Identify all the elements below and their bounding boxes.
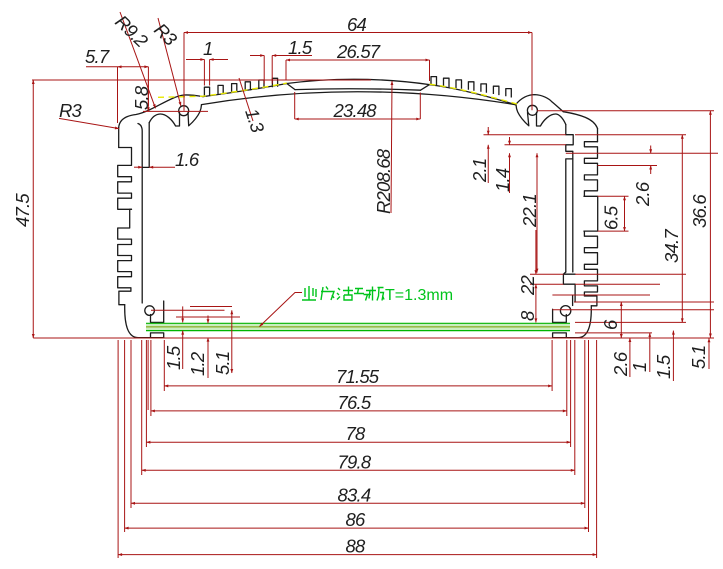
svg-text:47.5: 47.5 — [12, 193, 33, 227]
right wall lower outer + corner fillet — [553, 306, 592, 338]
right shoulder outer to wall — [563, 112, 597, 129]
svg-text:86: 86 — [346, 509, 366, 530]
svg-text:2.1: 2.1 — [469, 159, 490, 183]
svg-text:64: 64 — [347, 14, 366, 35]
dim 6.5 — [624, 196, 626, 231]
svg-text:6.5: 6.5 — [601, 205, 622, 230]
leader R3 top — [158, 18, 181, 106]
svg-text:2.6: 2.6 — [632, 181, 653, 207]
bottom extension line y=338 — [33, 337, 714, 339]
right wall inner line + notches — [566, 125, 573, 273]
right wall outer block — [597, 129, 599, 142]
svg-text:R3: R3 — [150, 19, 182, 50]
svg-text:R9.2: R9.2 — [111, 11, 152, 52]
svg-text:36.6: 36.6 — [689, 194, 710, 228]
svg-text:22.1: 22.1 — [519, 194, 540, 228]
green annotation: hand-drawn CJK 此为活动板 + T=1.3mm — [302, 286, 384, 301]
dim 2.1 — [487, 127, 489, 135]
ext line plate bottom right — [575, 332, 652, 334]
leader 1.3 wall thickness — [239, 78, 253, 121]
right boss hump outer — [516, 95, 564, 112]
plate center line — [146, 326, 570, 328]
ext lines right tab — [530, 273, 563, 275]
dim 1.6 — [134, 166, 142, 168]
svg-text:23.48: 23.48 — [333, 100, 378, 121]
extra ext line hook left — [147, 340, 149, 410]
svg-text:1.5: 1.5 — [653, 354, 674, 379]
char 动 — [354, 289, 371, 301]
76.5 — [150, 340, 152, 416]
svg-text:76.5: 76.5 — [338, 392, 372, 413]
svg-text:1.2: 1.2 — [187, 351, 208, 376]
svg-text:78: 78 — [346, 423, 366, 444]
svg-text:83.4: 83.4 — [338, 484, 371, 505]
svg-text:1.6: 1.6 — [175, 149, 200, 170]
left wall outer shoulder block — [118, 128, 120, 148]
svg-text:71.55: 71.55 — [336, 366, 380, 387]
right boss center line — [537, 110, 714, 112]
svg-text:5.7: 5.7 — [85, 46, 110, 67]
chamfer right of center recess — [421, 85, 430, 91]
svg-text:R208.68: R208.68 — [373, 148, 394, 214]
right wall inner tab 22/8 — [563, 272, 575, 302]
ext line hook top right — [574, 301, 714, 303]
dim 1 (tooth) — [203, 60, 205, 86]
right inner channel line — [572, 159, 574, 272]
plateau top arc R208.68 — [287, 79, 430, 84]
83.4 — [130, 340, 132, 508]
right boss screw-port omega — [516, 105, 529, 126]
dim 64 — [183, 33, 185, 111]
dim 1.5 (tooth gap) — [263, 56, 265, 84]
svg-text:1: 1 — [203, 38, 213, 59]
dim 1.5 bottom — [672, 331, 674, 381]
dim 6.5 ext — [598, 195, 629, 197]
right fins comb — [584, 142, 598, 197]
right hook circle — [560, 306, 570, 316]
right plate slot — [553, 309, 567, 322]
dim 5.8 vertical at boss — [147, 80, 149, 111]
dim 34.7 — [681, 135, 683, 323]
top extension line y=80 — [32, 79, 371, 81]
left hook circle — [145, 306, 155, 316]
char 活 — [337, 287, 353, 301]
inner top arc — [202, 92, 516, 105]
78 — [145, 340, 147, 447]
svg-text:88: 88 — [346, 536, 366, 557]
right outer arc under teeth band — [430, 85, 516, 105]
plate fill — [146, 324, 570, 330]
dim 26.57 — [285, 60, 287, 80]
left boss screw-port omega — [149, 113, 179, 127]
bottom dim stack: 71.55 — [163, 340, 165, 391]
big fin 6.5 — [584, 196, 598, 231]
plate top line — [146, 322, 570, 324]
leader R3 left — [59, 118, 119, 128]
dim 2.6 bottom — [629, 338, 631, 377]
leader R208.68 — [391, 81, 392, 213]
svg-text:6: 6 — [600, 319, 621, 330]
outer top: left shoulder + R9.2 boss hump — [119, 95, 203, 128]
88 — [117, 340, 119, 558]
svg-text:5.1: 5.1 — [688, 346, 709, 369]
svg-text:5.8: 5.8 — [131, 85, 152, 110]
char 板 — [370, 287, 384, 301]
dim 5.1 right — [708, 338, 710, 369]
right boss circle — [527, 105, 537, 115]
svg-text:T=1.3mm: T=1.3mm — [385, 287, 453, 304]
left plate slot — [151, 301, 164, 322]
86 — [124, 340, 126, 532]
left fins comb — [118, 148, 132, 210]
svg-text:2.6: 2.6 — [610, 351, 631, 377]
dim 23.48 — [294, 92, 296, 119]
left wall lower outer + corner fillet — [125, 305, 164, 338]
dim 1.4 — [509, 137, 511, 145]
svg-text:1: 1 — [629, 363, 650, 373]
svg-text:5.1: 5.1 — [212, 352, 233, 375]
svg-text:34.7: 34.7 — [661, 229, 682, 263]
dim 5.7 — [117, 67, 119, 123]
svg-text:79.8: 79.8 — [338, 451, 372, 472]
yellow dashed hidden line along arc — [158, 83, 517, 104]
ext line plate top right — [575, 321, 686, 323]
dim 2.6 upper right — [650, 146, 652, 154]
ext lines right wall grooves — [484, 134, 566, 136]
dim 22 — [535, 230, 537, 274]
center recess floor line 23.48 — [295, 89, 421, 90]
dim 8 — [535, 284, 537, 322]
svg-text:1.4: 1.4 — [492, 168, 513, 192]
top teeth right band — [431, 77, 511, 98]
left small dims 1.5/1.2/5.1 — [176, 316, 240, 318]
svg-text:8: 8 — [517, 310, 538, 321]
leader R9.2 — [120, 12, 156, 108]
svg-text:22: 22 — [517, 275, 538, 296]
annotation leader — [260, 293, 303, 327]
left outer arc under teeth band — [203, 84, 287, 97]
79.8 — [141, 340, 143, 475]
dim 22.1 — [536, 153, 538, 272]
svg-text:1.3: 1.3 — [241, 106, 269, 136]
svg-text:1.5: 1.5 — [288, 37, 313, 58]
svg-text:1.5: 1.5 — [163, 345, 184, 370]
plate bottom line — [146, 330, 570, 332]
top teeth left band — [204, 78, 277, 96]
svg-text:26.57: 26.57 — [336, 41, 381, 62]
char 为 — [321, 287, 334, 301]
char 此 — [302, 286, 316, 300]
dim 36.6 — [709, 111, 711, 338]
dim 6 right — [620, 302, 622, 338]
dim 47.5 vertical — [32, 80, 34, 338]
ext line left hook circle center — [151, 309, 225, 311]
dim 1 bottom — [649, 333, 651, 372]
left wall inner line + 1.6 tab — [138, 124, 142, 304]
svg-text:R3: R3 — [59, 100, 83, 121]
chamfer left of center recess — [287, 84, 295, 90]
left boss circle — [179, 106, 189, 116]
